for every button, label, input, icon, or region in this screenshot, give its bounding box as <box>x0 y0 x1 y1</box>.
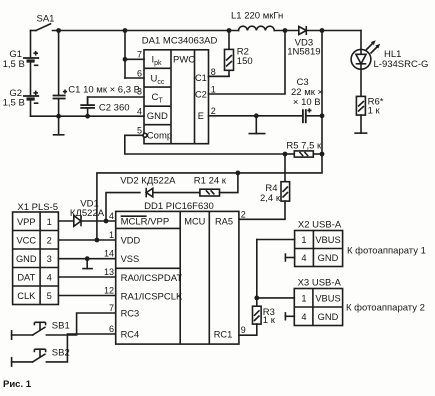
button SB2 <box>12 334 116 367</box>
svg-text:4: 4 <box>109 211 114 221</box>
connector X2 USB-A <box>285 220 426 267</box>
svg-text:К фотоаппарату 2: К фотоаппарату 2 <box>346 303 425 314</box>
wire DA1 pin 1 to inductor node <box>209 28 288 94</box>
svg-text:3: 3 <box>47 254 52 264</box>
svg-text:2,4 к: 2,4 к <box>260 193 281 204</box>
switch SA1 <box>31 14 55 31</box>
svg-text:R5 7,5 к: R5 7,5 к <box>286 140 322 151</box>
svg-text:8: 8 <box>211 67 216 77</box>
wire DA1 pin 5 Comp line <box>125 133 285 154</box>
svg-text:VBUS: VBUS <box>315 235 340 245</box>
svg-text:12: 12 <box>104 286 114 296</box>
svg-text:1: 1 <box>301 293 306 303</box>
wire DA1 pin 2 emitter line <box>209 115 323 117</box>
svg-text:GND: GND <box>318 312 339 322</box>
svg-text:К фотоаппарату 1: К фотоаппарату 1 <box>347 246 426 257</box>
wire battery column <box>30 31 32 117</box>
wire top positive rail <box>53 30 362 32</box>
wire bottom ground rail <box>31 115 145 117</box>
wire VBUS net <box>254 240 294 307</box>
resistor R3 <box>239 306 276 335</box>
connector X1 PLS-5 <box>13 202 59 304</box>
svg-text:2: 2 <box>211 106 216 116</box>
svg-text:1,5 В: 1,5 В <box>3 98 25 109</box>
svg-text:150: 150 <box>237 56 253 67</box>
svg-text:C1 10 мк × 6,3 В: C1 10 мк × 6,3 В <box>68 84 140 95</box>
svg-text:2: 2 <box>241 209 246 219</box>
svg-text:RA5: RA5 <box>215 216 233 226</box>
capacitor C1 <box>53 28 140 119</box>
svg-text:Рис. 1: Рис. 1 <box>3 379 32 390</box>
svg-text:4: 4 <box>47 272 52 282</box>
svg-text:GND: GND <box>147 111 168 122</box>
resistor R2 <box>209 28 253 76</box>
ground emitter line <box>249 113 266 133</box>
svg-text:X2 USB-A: X2 USB-A <box>298 220 342 231</box>
wire DA1 supply branch pins 7 and 6 <box>123 28 144 78</box>
svg-text:RA1/ICSPCLK: RA1/ICSPCLK <box>121 291 183 302</box>
svg-text:RC4: RC4 <box>121 329 140 339</box>
svg-text:1: 1 <box>109 230 114 240</box>
svg-text:X1 PLS-5: X1 PLS-5 <box>17 202 58 213</box>
svg-text:4: 4 <box>301 312 306 322</box>
diode VD3 1N5819 <box>287 26 320 58</box>
svg-text:Comp: Comp <box>147 131 172 142</box>
svg-text:VD2 КД522А: VD2 КД522А <box>120 176 176 187</box>
resistor R4 <box>239 154 290 219</box>
svg-text:DA1 MC34063AD: DA1 MC34063AD <box>142 35 218 46</box>
ground at R6 <box>354 115 367 133</box>
capacitor C3 <box>291 77 323 123</box>
MCU DD1 PIC16F630 box <box>104 201 246 344</box>
svg-text:× 10 В: × 10 В <box>293 97 321 108</box>
svg-text:5: 5 <box>137 126 142 136</box>
svg-text:MCLR/VPP: MCLR/VPP <box>121 216 170 227</box>
wire DA1 pin 3 CT <box>88 97 144 105</box>
svg-text:7: 7 <box>137 50 142 60</box>
ground at VSS <box>82 256 93 268</box>
svg-text:VCC: VCC <box>16 235 36 245</box>
ground battery rail <box>53 116 65 135</box>
LED HL1 L-934SRC-G <box>351 31 428 97</box>
svg-text:X3 USB-A: X3 USB-A <box>298 278 342 289</box>
svg-text:5: 5 <box>47 291 52 301</box>
svg-text:1: 1 <box>211 85 216 95</box>
svg-text:1 к: 1 к <box>368 106 381 117</box>
connector X3 USB-A <box>285 278 425 326</box>
svg-text:DAT: DAT <box>17 272 35 282</box>
svg-text:1 к: 1 к <box>263 315 276 326</box>
battery G1 <box>3 49 40 70</box>
wire output node vertical and feed to VDD <box>95 28 325 242</box>
svg-text:RC1: RC1 <box>214 329 233 339</box>
svg-text:C2 360: C2 360 <box>99 102 130 113</box>
svg-text:GND: GND <box>318 253 339 263</box>
diode VD2 with R1 pullup net <box>104 176 200 224</box>
svg-text:1,5 В: 1,5 В <box>3 59 25 70</box>
svg-text:MCU: MCU <box>184 216 205 226</box>
svg-text:RA0/ICSPDAT: RA0/ICSPDAT <box>121 273 183 284</box>
svg-text:C2: C2 <box>195 90 207 100</box>
svg-text:SB1: SB1 <box>52 320 70 331</box>
resistor R1 <box>194 171 241 197</box>
diode VD1 КД522А <box>58 198 115 226</box>
resistor R5 <box>283 140 322 157</box>
wire DAT to RA0 <box>58 276 115 278</box>
svg-text:1: 1 <box>47 217 52 227</box>
op-amp U1 DA1 MC34063AD box <box>137 35 217 143</box>
svg-text:14: 14 <box>104 249 114 259</box>
svg-text:13: 13 <box>104 267 114 277</box>
svg-text:6: 6 <box>109 324 114 334</box>
svg-text:VBUS: VBUS <box>315 293 340 303</box>
svg-text:C1: C1 <box>195 73 207 83</box>
svg-text:VPP: VPP <box>17 217 36 227</box>
wire VCC to VDD <box>58 239 115 241</box>
svg-text:CLK: CLK <box>17 291 36 301</box>
capacitor C2 <box>80 97 129 119</box>
button SB1 <box>12 313 116 340</box>
svg-text:7: 7 <box>109 303 114 313</box>
svg-text:L1 220 мкГн: L1 220 мкГн <box>231 10 283 21</box>
svg-text:3: 3 <box>137 86 142 96</box>
battery G2 <box>3 88 40 109</box>
svg-text:2: 2 <box>47 235 52 245</box>
svg-text:VSS: VSS <box>121 254 140 264</box>
svg-text:4: 4 <box>137 106 142 116</box>
svg-text:DD1 PIC16F630: DD1 PIC16F630 <box>144 201 214 212</box>
svg-text:L-934SRC-G: L-934SRC-G <box>374 59 429 70</box>
svg-text:1N5819: 1N5819 <box>287 47 320 58</box>
svg-text:PWC: PWC <box>173 55 195 66</box>
inductor L1 <box>231 10 283 30</box>
svg-text:1: 1 <box>301 235 306 245</box>
wire CLK to RA1 <box>58 295 115 297</box>
svg-text:R1 24 к: R1 24 к <box>194 176 227 187</box>
wire DA1 pin 8 to R2 <box>209 75 230 77</box>
svg-text:9: 9 <box>241 325 246 335</box>
resistor R6 <box>356 96 383 116</box>
svg-text:VDD: VDD <box>121 235 141 245</box>
svg-text:E: E <box>198 111 204 121</box>
svg-text:SB2: SB2 <box>52 347 70 358</box>
wire GND to VSS <box>58 258 115 260</box>
svg-text:GND: GND <box>16 254 37 264</box>
svg-text:6: 6 <box>137 68 142 78</box>
svg-text:RC3: RC3 <box>121 308 140 318</box>
svg-text:КД522А: КД522А <box>70 208 105 219</box>
svg-text:4: 4 <box>301 253 306 263</box>
svg-text:SA1: SA1 <box>37 14 55 25</box>
